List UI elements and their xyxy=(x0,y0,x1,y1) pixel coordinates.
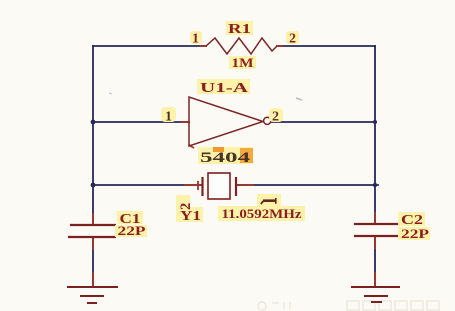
svg-text:2: 2 xyxy=(178,203,194,210)
svg-text:U1-A: U1-A xyxy=(200,81,249,96)
svg-text:22P: 22P xyxy=(401,227,429,241)
svg-text:1M: 1M xyxy=(232,55,254,70)
svg-text:1: 1 xyxy=(192,32,199,47)
svg-text:2: 2 xyxy=(272,110,279,125)
svg-text:5404: 5404 xyxy=(200,150,251,166)
svg-text:C2: C2 xyxy=(401,213,423,228)
svg-text:1: 1 xyxy=(165,110,172,125)
svg-text:R1: R1 xyxy=(228,22,251,37)
svg-text:11.0592MHz: 11.0592MHz xyxy=(222,207,303,221)
svg-text:2: 2 xyxy=(289,32,296,47)
svg-text:22P: 22P xyxy=(118,224,146,238)
